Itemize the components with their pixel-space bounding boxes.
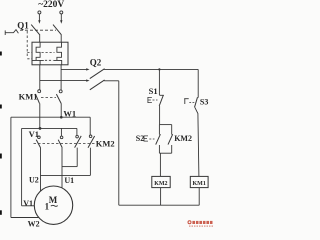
svg-text:W2: W2 — [28, 219, 40, 228]
svg-text:KM2: KM2 — [174, 134, 192, 143]
svg-text:KM1: KM1 — [19, 92, 38, 102]
svg-text:U2: U2 — [29, 176, 39, 185]
svg-text:Q2: Q2 — [90, 58, 102, 68]
svg-text:KM2: KM2 — [96, 139, 115, 149]
svg-text:Q1: Q1 — [17, 21, 29, 31]
svg-text:~220V: ~220V — [38, 0, 64, 10]
svg-text:KM1: KM1 — [193, 181, 206, 187]
svg-text:U1: U1 — [64, 176, 74, 185]
svg-text:S2: S2 — [136, 134, 144, 143]
svg-text:W1: W1 — [63, 109, 76, 119]
svg-text:KM2: KM2 — [154, 181, 167, 187]
svg-text:S1: S1 — [149, 86, 158, 96]
svg-text:1: 1 — [45, 202, 50, 212]
svg-text:S3: S3 — [200, 98, 208, 107]
svg-text:M: M — [49, 195, 58, 205]
svg-text:V1: V1 — [29, 129, 39, 139]
svg-text:V1: V1 — [23, 199, 33, 208]
